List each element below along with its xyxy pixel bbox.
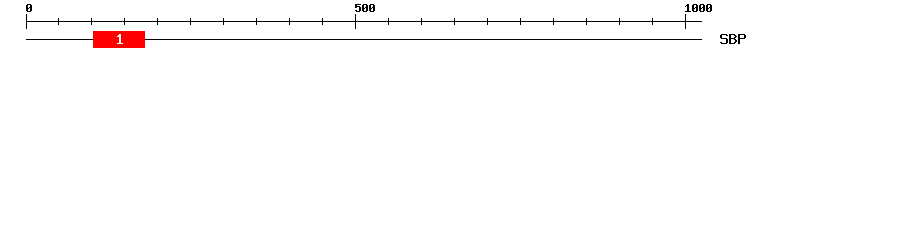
minor tick 150 (124, 18, 125, 25)
minor tick 200 (157, 18, 158, 25)
minor tick 900 (619, 18, 620, 25)
major tick 500 (355, 14, 356, 29)
ruler axis line (26, 21, 702, 22)
minor tick 350 (256, 18, 257, 25)
minor tick 450 (322, 18, 323, 25)
background (0, 0, 900, 58)
sequence name SBP (720, 34, 746, 44)
minor tick 100 (91, 18, 92, 25)
minor tick 50 (58, 18, 59, 25)
domain box 1 (red) (93, 31, 145, 48)
minor tick 850 (586, 18, 587, 25)
minor tick 600 (421, 18, 422, 25)
minor tick 400 (289, 18, 290, 25)
domain number 1 (white) (117, 34, 123, 44)
minor tick 800 (553, 18, 554, 25)
ruler label 500 (355, 4, 375, 12)
minor tick 950 (652, 18, 653, 25)
minor tick 650 (454, 18, 455, 25)
minor tick 750 (520, 18, 521, 25)
minor tick 550 (388, 18, 389, 25)
major tick 1000 (685, 14, 686, 29)
major tick 0 (26, 14, 27, 29)
ruler label 1000 (685, 4, 712, 12)
ruler label 0 (26, 4, 32, 12)
minor tick 250 (190, 18, 191, 25)
sequence line (26, 39, 702, 40)
minor tick 300 (223, 18, 224, 25)
minor tick 700 (487, 18, 488, 25)
